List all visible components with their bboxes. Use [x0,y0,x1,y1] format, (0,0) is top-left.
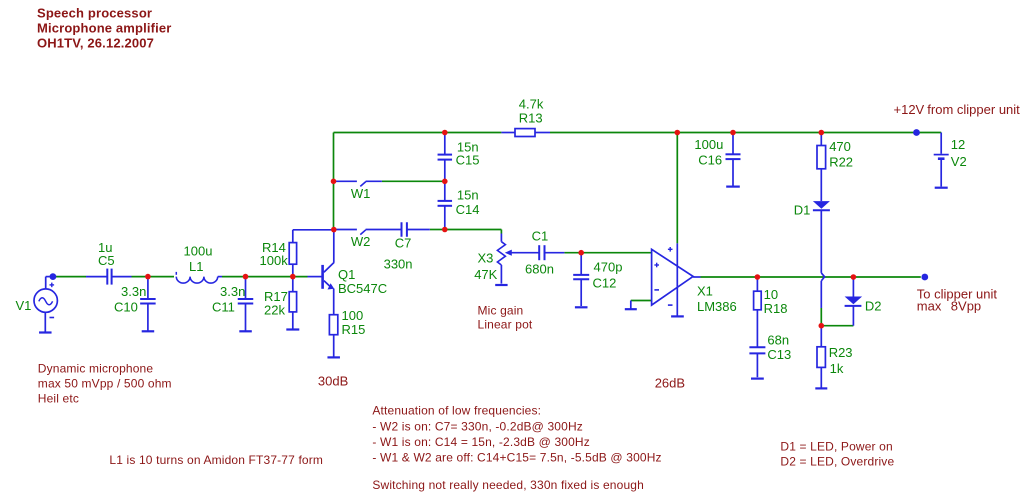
svg-text:22k: 22k [264,303,285,318]
svg-text:C15: C15 [456,153,480,168]
svg-text:R18: R18 [764,301,788,316]
svg-text:100u: 100u [694,137,723,152]
svg-text:Speech processor: Speech processor [37,5,152,20]
svg-text:W2: W2 [351,234,371,249]
svg-text:Heil etc: Heil etc [38,392,79,406]
svg-text:R15: R15 [342,322,366,337]
svg-text:Linear pot: Linear pot [478,317,533,331]
svg-text:8Vpp: 8Vpp [951,299,981,314]
svg-text:- W1 & W2 are off: C14+C15= 7.: - W1 & W2 are off: C14+C15= 7.5n, -5.5dB… [372,450,661,464]
svg-text:Switching not really needed, 3: Switching not really needed, 330n fixed … [372,478,644,492]
svg-text:470p: 470p [594,260,623,275]
svg-text:from clipper unit: from clipper unit [927,102,1020,117]
svg-text:R13: R13 [519,110,543,125]
svg-text:3.3n: 3.3n [220,284,245,299]
svg-text:W1: W1 [351,186,371,201]
svg-text:R22: R22 [829,155,853,170]
svg-text:V1: V1 [16,298,32,313]
svg-text:R23: R23 [829,345,853,360]
svg-text:30dB: 30dB [318,374,348,389]
svg-text:Mic gain: Mic gain [478,304,524,318]
svg-text:X3: X3 [478,250,494,265]
svg-text:C12: C12 [593,276,617,291]
svg-text:D2: D2 [865,299,882,314]
svg-text:C11: C11 [212,299,235,314]
svg-text:+12V: +12V [894,102,925,117]
svg-text:15n: 15n [457,188,479,203]
svg-text:Attenuation of low frequencies: Attenuation of low frequencies: [372,403,541,417]
svg-text:L1: L1 [189,259,203,274]
svg-text:D2 = LED, Overdrive: D2 = LED, Overdrive [780,454,894,468]
svg-text:D1: D1 [794,202,811,217]
svg-text:X1: X1 [697,283,713,298]
svg-text:470: 470 [829,139,851,154]
svg-text:- W2 is on: C7= 330n, -0.2dB@: - W2 is on: C7= 330n, -0.2dB@ 300Hz [372,419,583,433]
svg-text:C5: C5 [98,253,115,268]
svg-text:100: 100 [342,308,364,323]
svg-text:C1: C1 [532,229,549,244]
svg-text:Q1: Q1 [338,267,355,282]
svg-text:100u: 100u [184,243,213,258]
svg-text:L1 is 10 turns on Amidon FT37-: L1 is 10 turns on Amidon FT37-77 form [109,453,323,467]
svg-text:D1 = LED, Power on: D1 = LED, Power on [780,439,892,453]
svg-text:Dynamic microphone: Dynamic microphone [38,362,154,376]
svg-text:- W1 is on: C14 = 15n, -2.3dB: - W1 is on: C14 = 15n, -2.3dB @ 300Hz [372,435,590,449]
svg-text:4.7k: 4.7k [519,96,544,111]
svg-text:C16: C16 [698,153,722,168]
svg-text:12: 12 [951,137,965,152]
svg-text:LM386: LM386 [697,299,737,314]
svg-text:330n: 330n [384,257,413,272]
svg-text:C10: C10 [114,299,138,314]
svg-text:C14: C14 [456,202,480,217]
svg-text:C7: C7 [395,235,412,250]
svg-text:10: 10 [764,287,778,302]
svg-text:max: max [917,299,942,314]
svg-text:OH1TV, 26.12.2007: OH1TV, 26.12.2007 [37,35,154,50]
svg-text:3.3n: 3.3n [121,284,146,299]
svg-text:C13: C13 [767,347,791,362]
svg-text:1k: 1k [830,361,844,376]
svg-text:100k: 100k [260,253,289,268]
svg-text:max 50 mVpp / 500 ohm: max 50 mVpp / 500 ohm [38,377,172,391]
svg-text:680n: 680n [525,261,554,276]
svg-text:26dB: 26dB [655,375,685,390]
svg-text:47K: 47K [474,267,497,282]
svg-text:Microphone amplifier: Microphone amplifier [37,20,171,35]
svg-text:68n: 68n [767,333,789,348]
svg-text:V2: V2 [951,154,967,169]
svg-text:BC547C: BC547C [338,281,387,296]
